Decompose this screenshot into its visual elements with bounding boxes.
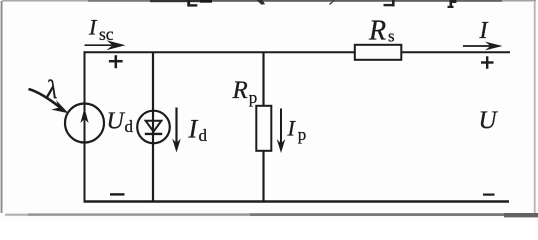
- wire Rp branch: [262, 52, 264, 202]
- plus polarity mark left: [109, 55, 123, 68]
- svg-text:U: U: [479, 107, 499, 134]
- svg-text:p: p: [298, 125, 307, 144]
- current arrow Isc: [85, 40, 126, 50]
- current source (photocurrent): [65, 104, 104, 143]
- minus polarity mark left: [110, 193, 125, 195]
- label Rs: [368, 16, 395, 47]
- wire current-source branch: [84, 51, 86, 202]
- label Isc: [88, 15, 114, 44]
- label Ip: [287, 116, 307, 144]
- wire bottom rail (common return): [84, 200, 510, 203]
- svg-text:s: s: [388, 27, 395, 46]
- svg-text:R: R: [368, 16, 386, 47]
- current arrow I: [463, 42, 503, 51]
- svg-text:d: d: [199, 126, 208, 145]
- svg-text:U: U: [107, 108, 126, 134]
- label Ud: [107, 108, 134, 136]
- resistor Rs: [355, 45, 402, 60]
- wire top rail (positive node from Isc branch through Rs to output): [85, 51, 511, 53]
- svg-text:sc: sc: [99, 24, 114, 44]
- diode VD: [137, 111, 170, 144]
- minus polarity mark right: [483, 194, 495, 196]
- wire diode branch: [152, 52, 154, 202]
- svg-text:I: I: [188, 114, 199, 143]
- svg-text:R: R: [232, 77, 248, 104]
- plus polarity mark right: [481, 56, 494, 69]
- svg-text:d: d: [125, 117, 134, 136]
- svg-text:p: p: [249, 88, 257, 107]
- lambda arrow pointing at current source: [29, 89, 69, 113]
- resistor Rp: [256, 106, 271, 151]
- label Id: [188, 114, 208, 144]
- current arrow Id: [172, 108, 181, 153]
- label Rp: [232, 77, 258, 107]
- current arrow Ip: [277, 109, 286, 154]
- svg-text:I: I: [479, 18, 489, 44]
